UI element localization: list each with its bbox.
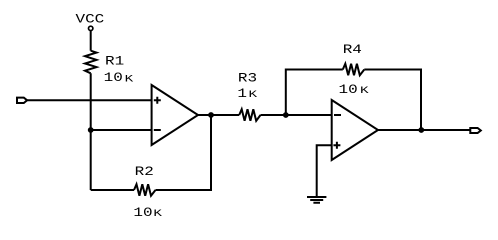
resistor R1 [85,51,97,74]
wire feedback bottom left [91,189,134,191]
wire feedback2 up left [286,70,343,116]
svg-text:K: K [153,208,162,219]
label 1K [237,87,257,101]
wire minus input op-amp1 [91,129,152,131]
wire R3 to op-amp2 minus pin [261,114,332,116]
svg-text:R2: R2 [135,165,154,179]
wire op-amp2 output to port [378,129,470,131]
label 10K (R1) [104,71,134,85]
svg-text:K: K [249,89,258,100]
label 10K (R2) [133,206,162,220]
node junction dot before op-amp2 [283,112,289,118]
svg-text:10: 10 [104,71,123,85]
wire op-amp2 plus pin to ground [317,145,332,197]
resistor R3 [239,109,260,121]
svg-text:1: 1 [237,87,247,101]
svg-text:R1: R1 [105,55,124,69]
op-amp U1 [152,85,198,145]
resistor R4 [343,64,365,76]
op-amp U2 plus sign [333,142,340,149]
op-amp U1 plus sign [154,97,161,104]
node junction dot at output [418,127,424,133]
wire feedback bottom right [156,115,212,190]
ground [307,197,326,203]
wire feedback2 right down [364,70,421,131]
wire input to op-amp1 + pin [27,99,152,101]
svg-text:K: K [125,73,134,84]
svg-text:R3: R3 [238,72,257,86]
svg-text:K: K [360,85,369,96]
op-amp U2 [332,100,378,160]
wire op-amp1 output to R3 [198,114,239,116]
resistor R2 [134,184,156,196]
port IN [17,98,27,103]
node junction dot at op-amp1 output [208,112,214,118]
wire R1 bottom down to feedback [90,73,92,190]
svg-text:VCC: VCC [76,13,105,27]
VCC pin circle [89,26,93,30]
op-amp U1 minus sign [154,129,161,131]
svg-text:10: 10 [133,206,152,220]
svg-text:R4: R4 [343,43,362,57]
port OUT [470,128,481,133]
label 10K (R4) [339,83,370,97]
wire VCC circle to R1 [90,31,92,51]
node junction dot at minus input [88,127,94,133]
op-amp U2 minus sign [334,114,341,116]
svg-text:10: 10 [339,83,358,97]
